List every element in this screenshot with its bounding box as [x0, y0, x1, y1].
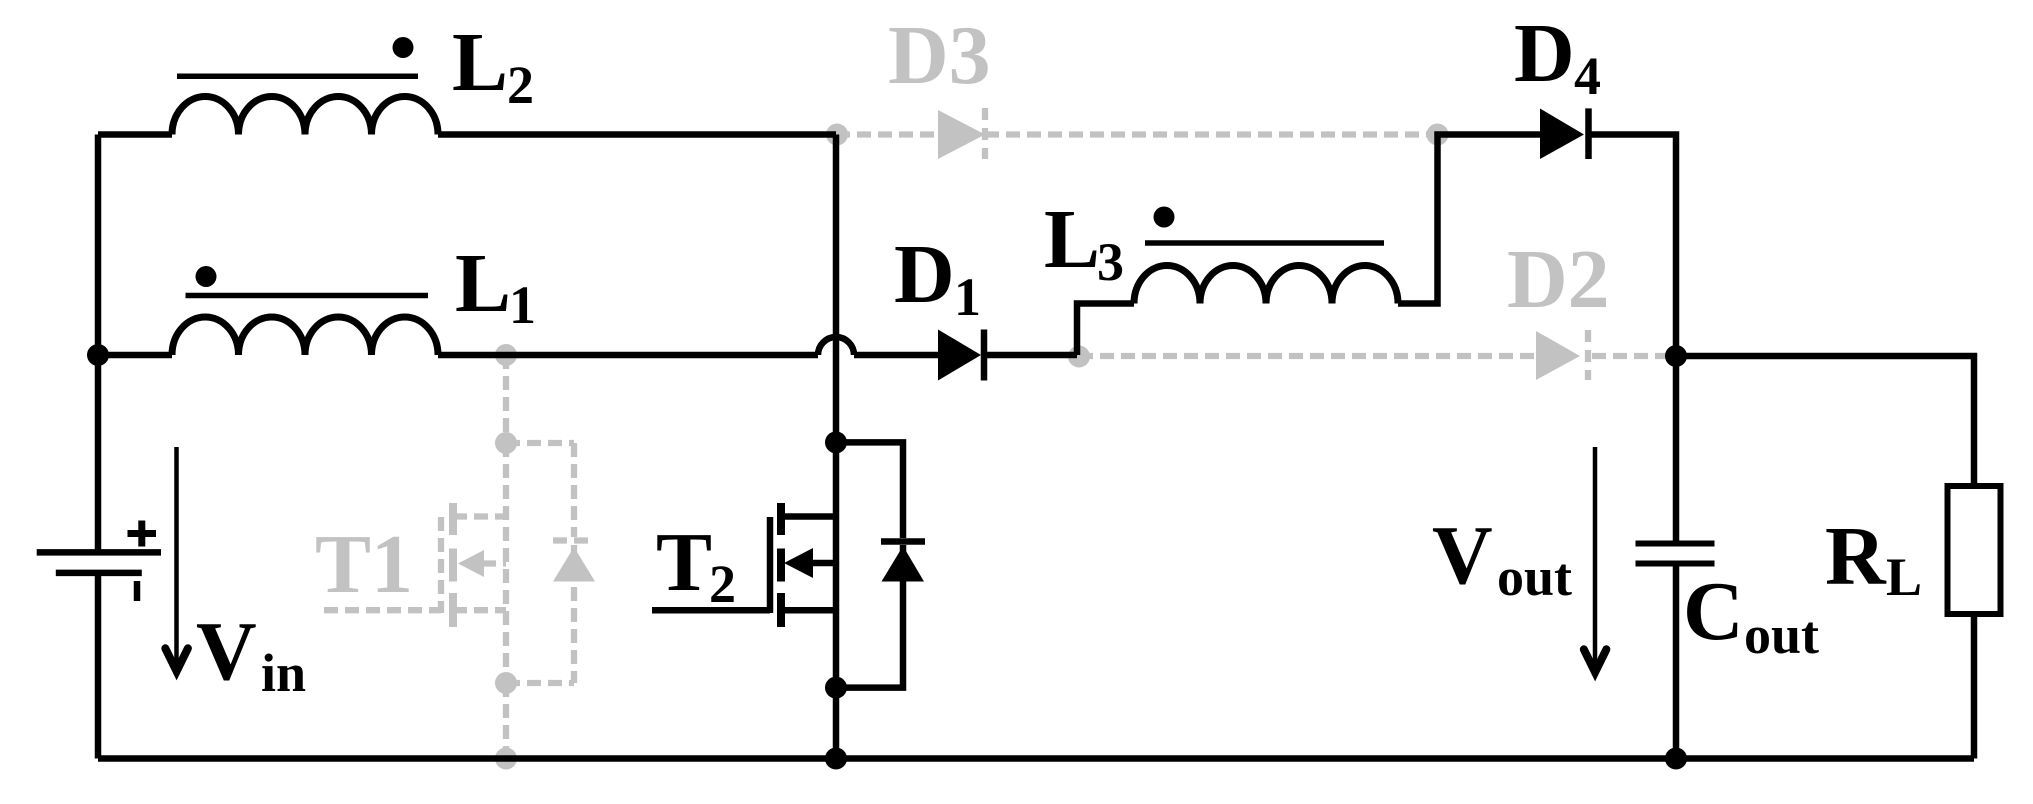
diode D1 cathode bar	[981, 330, 988, 381]
transistor T1 gate lead	[324, 607, 441, 613]
transistor T2 body-diode triangle	[882, 546, 925, 582]
diode D4 cathode bar	[1585, 108, 1592, 159]
node dot: T2 source node	[825, 677, 847, 699]
capacitor Cout top plate	[1636, 541, 1715, 547]
svg-text:1: 1	[954, 267, 981, 327]
wire: left vertical (Vin bottom)	[95, 573, 102, 759]
node dot: T2 on bottom rail	[825, 748, 847, 770]
transistor T1 drain lead	[453, 513, 506, 519]
diode D2 dashed wire (cathode side)	[1592, 353, 1676, 359]
transistor T1 arrowhead	[458, 550, 484, 577]
svg-text:L: L	[455, 237, 511, 330]
transistor T2 drain lead	[781, 513, 836, 520]
voltage source Vin bottom plate	[56, 570, 142, 577]
node dot: Cout on bottom rail	[1665, 748, 1687, 770]
node dot: D2 anode at L3 step	[1068, 346, 1090, 368]
svg-text:V: V	[196, 605, 257, 698]
wire: output node down to Cout	[1673, 356, 1680, 759]
transistor T1 source lead	[453, 607, 506, 613]
diode D4 triangle	[1540, 109, 1584, 160]
node dot: T1 source node	[495, 672, 517, 694]
inductor L2 polarity dot	[393, 37, 414, 58]
transistor T1 channel vertical	[503, 443, 509, 683]
wire: D1 anode segment	[854, 352, 938, 359]
inductor L2 coupling bar	[177, 74, 418, 80]
wire: bottom rail	[98, 755, 1974, 762]
wire: RL bottom to bottom rail	[1971, 614, 1978, 759]
inductor L2 with leads	[98, 131, 836, 138]
diode D3 dashed wire (anode side)	[836, 131, 938, 137]
transistor T2 arrowhead	[784, 548, 813, 578]
transistor T1 body-diode branch vertical	[571, 443, 577, 537]
svg-text:D3: D3	[888, 9, 991, 102]
transistor T2 arrow lead	[810, 560, 836, 567]
svg-text:D: D	[1514, 7, 1575, 100]
inductor L1 with leads	[98, 352, 818, 359]
svg-text:V: V	[1432, 509, 1493, 602]
resistor RL body	[1948, 486, 2001, 614]
node dot: T1 drain node	[495, 432, 517, 454]
svg-text:4: 4	[1574, 46, 1601, 106]
node dot: T2 drain node	[825, 431, 847, 453]
inductor L1 coupling bar	[186, 293, 429, 299]
transistor T2 body-diode cathode bar	[881, 538, 925, 545]
svg-text:L: L	[1886, 547, 1922, 607]
transistor T2 channel bars	[777, 503, 785, 535]
transistor T1 source net to bottom rail	[503, 683, 509, 759]
diode D3 triangle	[938, 110, 985, 159]
svg-text:out: out	[1744, 605, 1819, 665]
svg-text:1: 1	[509, 275, 536, 335]
svg-text:R: R	[1825, 510, 1887, 603]
Vout arrow	[1593, 447, 1598, 663]
node dot: D3 anode at top-rail corner	[826, 124, 848, 146]
diode D3 dashed wire (cathode side)	[985, 131, 1438, 137]
node dot: T1 drain on L1 rail	[495, 344, 517, 366]
voltage source Vin top plate	[37, 549, 161, 556]
svg-text:out: out	[1497, 547, 1572, 607]
transistor T1 channel bars	[449, 503, 457, 535]
svg-text:L: L	[452, 16, 508, 109]
diode D2 triangle	[1536, 331, 1580, 380]
diode D3 cathode bar (dashed)	[982, 108, 988, 159]
transistor T1 body-diode branch bottom wire	[506, 680, 574, 686]
node dot: output node	[1665, 345, 1687, 367]
transistor T2 body-diode branch	[836, 442, 903, 687]
svg-text:3: 3	[1097, 232, 1124, 292]
wire: D4 cathode to output corner, down to output node	[1589, 135, 1677, 357]
transistor T1 body-diode branch top wire	[506, 440, 574, 446]
svg-text:D2: D2	[1507, 233, 1610, 326]
Vin arrow	[174, 447, 179, 662]
transistor T1 drain net (dashed vertical from L1 rail)	[503, 355, 509, 443]
svg-text:T1: T1	[315, 518, 413, 611]
transistor T2 gate lead	[652, 607, 770, 614]
inductor L1 polarity dot	[196, 266, 217, 287]
node dot: T1 on bottom rail	[495, 748, 517, 770]
node dot: D3 cathode at D4 corner	[1427, 124, 1449, 146]
Vin plus sign	[128, 521, 157, 547]
inductor L3 polarity dot	[1154, 207, 1175, 228]
transistor T1 gate bar	[438, 517, 444, 613]
diode D2 cathode bar (dashed)	[1585, 330, 1591, 380]
svg-text:2: 2	[709, 554, 736, 614]
wire: left vertical (Vin top)	[95, 135, 102, 553]
svg-text:2: 2	[507, 55, 534, 115]
svg-text:C: C	[1683, 565, 1744, 658]
svg-text:D: D	[894, 228, 955, 321]
transistor T2 gate bar	[767, 517, 774, 613]
transistor T1 body-diode cathode bar	[553, 537, 595, 543]
wire: T2 drain vertical from top rail	[833, 135, 840, 759]
transistor T1 arrow lead	[482, 560, 506, 566]
svg-text:in: in	[261, 643, 306, 703]
capacitor Cout bottom plate	[1636, 561, 1715, 567]
svg-text:L: L	[1044, 193, 1100, 286]
transistor T1 body-diode triangle	[553, 547, 595, 582]
Vin minus tick	[134, 581, 141, 601]
diode D2 dashed wire (anode side)	[1079, 353, 1536, 359]
svg-text:T: T	[656, 516, 712, 609]
wire: D1 cathode to L3 step	[984, 352, 1077, 359]
wire: crossover bump on L1 rail over T2 drain wire	[818, 337, 854, 355]
wire: output node to RL branch	[1676, 356, 1974, 486]
inductor L3 coupling bar	[1145, 240, 1384, 246]
inductor L3 with step lead and right riser to D4	[1077, 135, 1540, 356]
diode D1 triangle	[938, 330, 981, 381]
node dot: L1/Vin junction	[87, 344, 109, 366]
transistor T2 source lead	[781, 607, 836, 614]
